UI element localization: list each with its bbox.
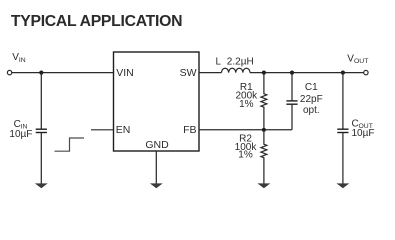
label COUT value (352, 118, 375, 139)
resistor R2 (261, 130, 267, 184)
label C1 (300, 82, 323, 116)
ground CIN (35, 183, 48, 188)
wire SW to inductor (199, 72, 222, 74)
terminal VIN (7, 70, 11, 74)
svg-text:2.2µH: 2.2µH (227, 56, 254, 67)
svg-text:22pF: 22pF (300, 94, 323, 105)
capacitor CIN (36, 129, 47, 132)
ground COUT (337, 183, 350, 188)
inductor L (222, 68, 250, 72)
junction SW/R1 (262, 71, 266, 75)
junction SW/COUT (341, 71, 345, 75)
label R1 (235, 82, 258, 110)
svg-text:VIN: VIN (116, 67, 134, 79)
ground U1 GND (150, 183, 163, 188)
wire EN stub (91, 129, 114, 131)
svg-text:SW: SW (180, 67, 197, 79)
capacitor C1 (286, 73, 297, 130)
capacitor COUT (337, 73, 348, 184)
resistor R1 (261, 73, 267, 130)
EN enable step waveform (55, 138, 85, 151)
svg-text:OUT: OUT (354, 58, 368, 65)
IC U1 (114, 52, 200, 151)
wire CIN branch down (40, 73, 42, 130)
wire CIN to ground (40, 133, 42, 184)
svg-text:EN: EN (116, 124, 131, 136)
svg-text:1%: 1% (239, 99, 254, 110)
label R2 (235, 133, 258, 160)
wire inductor to VOUT (250, 72, 364, 74)
label VOUT net (347, 53, 368, 65)
junction SW/C1 (290, 71, 294, 75)
svg-text:10µF: 10µF (352, 128, 375, 139)
wire FB net (199, 129, 292, 131)
ground R2 (258, 183, 271, 188)
svg-text:IN: IN (19, 57, 26, 64)
svg-text:L: L (216, 56, 222, 67)
wire GND pin stub (155, 151, 157, 184)
label CIN value (9, 119, 32, 140)
svg-text:TYPICAL APPLICATION: TYPICAL APPLICATION (11, 13, 182, 30)
svg-text:C1: C1 (305, 82, 318, 93)
svg-text:1%: 1% (238, 150, 253, 161)
svg-text:10µF: 10µF (9, 129, 32, 140)
junction FB/R1/R2 (262, 128, 266, 132)
svg-text:FB: FB (183, 124, 196, 136)
label VIN net (12, 52, 26, 64)
terminal VOUT (364, 70, 368, 74)
svg-text:opt.: opt. (303, 105, 320, 116)
wire VIN terminal to U1 VIN pin (12, 72, 114, 74)
junction VIN/CIN (39, 71, 43, 75)
svg-text:GND: GND (145, 139, 169, 151)
